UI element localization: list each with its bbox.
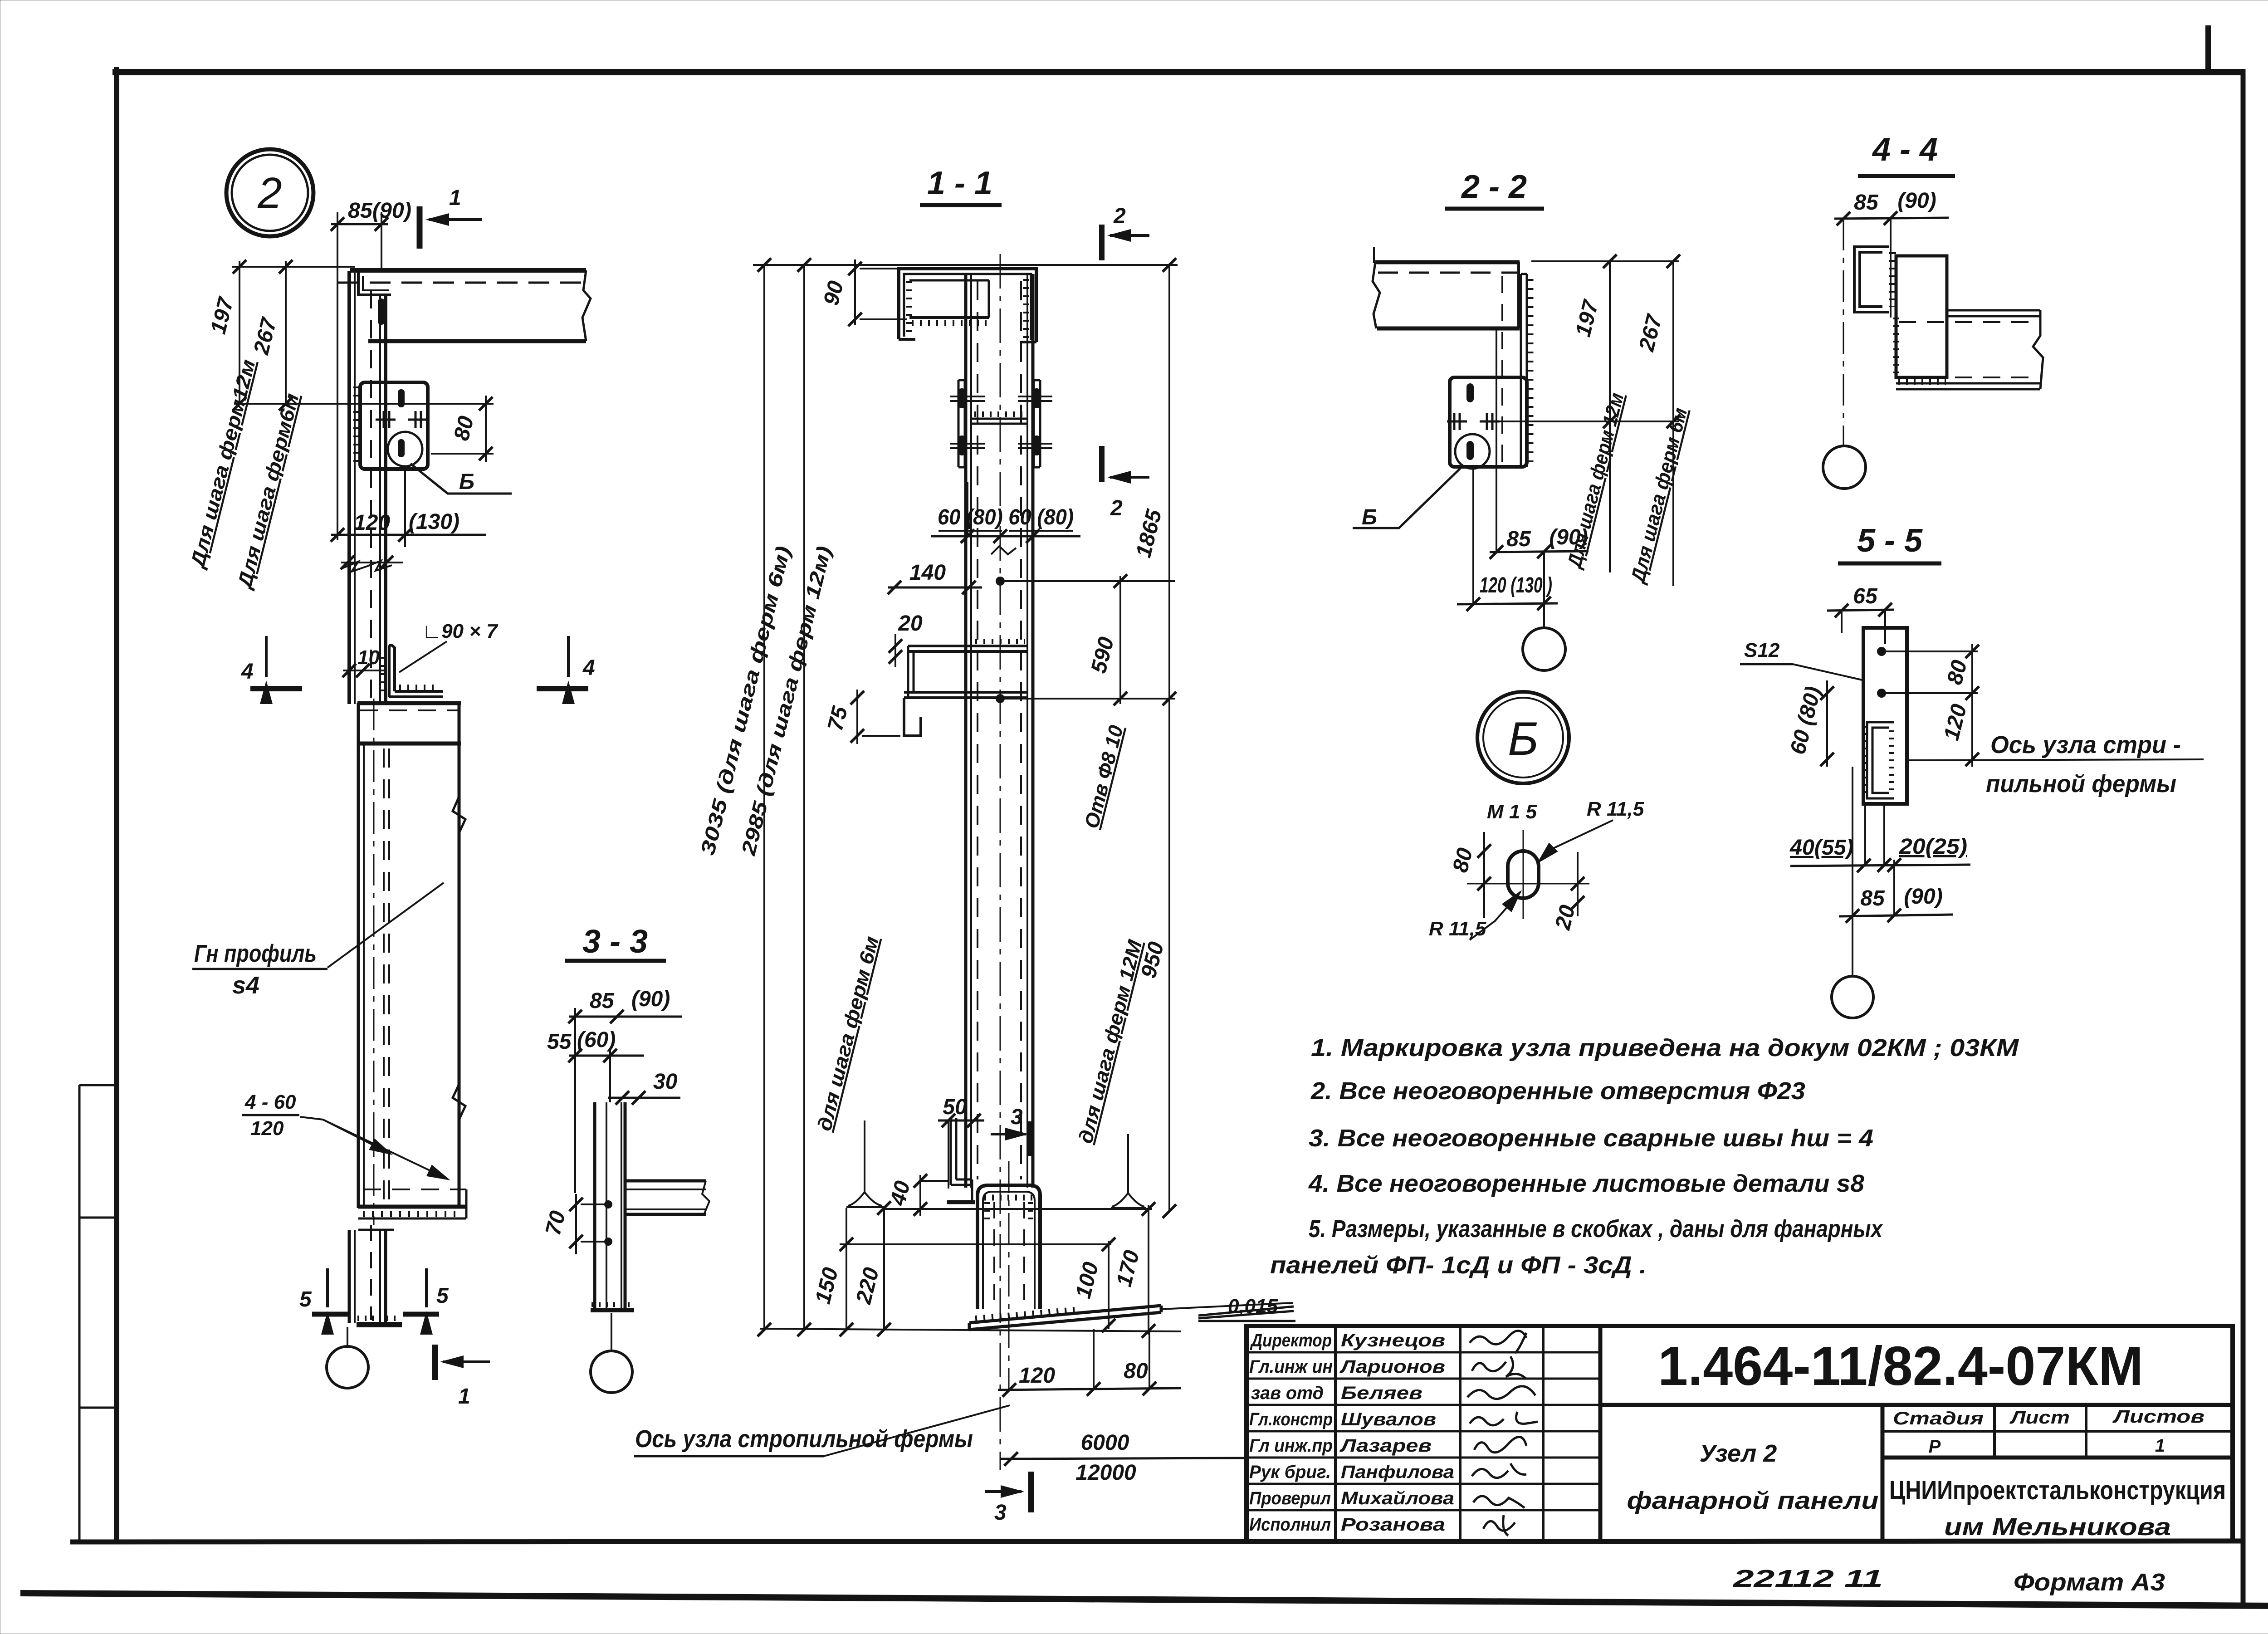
- 1-1 mid member weld comb: [974, 411, 1025, 417]
- 2-2 gusset bolt slot top: [1466, 383, 1474, 402]
- dim 80 extension lines: [431, 453, 494, 455]
- column right face: [384, 295, 387, 704]
- section mark 2 top bar: [1099, 225, 1105, 260]
- extension verticals 3-3: [574, 1008, 576, 1193]
- title 3-3 underline: [565, 959, 666, 963]
- svg-text:1: 1: [449, 186, 461, 210]
- svg-text:Проверил: Проверил: [1249, 1488, 1331, 1508]
- base plate weld comb: [975, 1309, 1080, 1318]
- column weld comb above beam: [380, 657, 386, 694]
- 2-2 gusset vertical plate: [1521, 274, 1527, 467]
- panel center dash-dot: [373, 699, 375, 1225]
- top reference line: [753, 264, 1178, 266]
- 4-4 beam bottom lines: [1896, 383, 2040, 389]
- 2-2 beam top flange: [1375, 260, 1520, 264]
- 5-5 lower dim line 40(55) 20(25): [1790, 865, 1970, 866]
- svg-text:Гл инж.пр: Гл инж.пр: [1249, 1436, 1333, 1456]
- leader R bottom: [1470, 892, 1520, 940]
- shoe dashed hidden lines: [993, 1202, 995, 1306]
- column left inner line: [354, 271, 356, 704]
- 3-3 dim 70 line: [575, 1194, 577, 1254]
- 5-5 bolt leader lines: [1886, 651, 1978, 693]
- cap channel inner: [904, 274, 1031, 340]
- dim 150 line: [846, 1208, 847, 1330]
- svg-text:120: 120: [1940, 702, 1972, 743]
- 4-4 beam top lines: [1947, 310, 2040, 316]
- bracket bottom flange: [904, 692, 1027, 698]
- svg-text:Гл.констр: Гл.констр: [1249, 1409, 1333, 1429]
- big number cell bottom line: [1600, 1403, 2233, 1407]
- dim 1865 line: [1168, 265, 1170, 1211]
- column right inner line: [379, 295, 381, 704]
- 1-1 bolt lines row 2: [950, 444, 1052, 448]
- svg-text:5 - 5: 5 - 5: [1857, 523, 1923, 559]
- svg-text:5: 5: [299, 1287, 312, 1311]
- svg-text:зав отд: зав отд: [1251, 1383, 1324, 1403]
- slot vertical center line: [1523, 830, 1524, 919]
- 5-5 axis line: [1908, 759, 2204, 760]
- 1-1 column right pair: [1026, 274, 1028, 1188]
- title 1-1 underline: [920, 203, 1002, 207]
- dim line 140: [888, 587, 982, 589]
- cap channel lips: [899, 338, 915, 341]
- left dim extension top line: [232, 266, 355, 268]
- 2-2 plate weld comb: [1528, 279, 1534, 465]
- section mark 4 right bar: [537, 686, 588, 691]
- panel bottom short line: [358, 1229, 394, 1231]
- 3-3 channel web lines: [593, 1102, 596, 1310]
- svg-text:R 11,5: R 11,5: [1587, 798, 1644, 820]
- gusset plate box: [360, 382, 428, 469]
- section mark 3 top arrow: [991, 1133, 1026, 1135]
- svg-text:пильной фермы: пильной фермы: [1986, 770, 2176, 797]
- 2-2 beam bottom flange: [1377, 327, 1520, 331]
- svg-text:Беляев: Беляев: [1341, 1383, 1422, 1403]
- panel right break mark 2: [453, 1084, 465, 1120]
- svg-text:80: 80: [450, 414, 479, 443]
- svg-text:220: 220: [851, 1265, 884, 1307]
- 2-2 dim vertical 197: [1609, 261, 1611, 572]
- trumpet foot left: [846, 1120, 884, 1207]
- title block column line 4: [1598, 1326, 1603, 1541]
- 2-2 gusset bolt slot bottom: [1466, 441, 1474, 460]
- 4-4 weld comb under plate left: [1893, 318, 1899, 377]
- 5-5 dim line 80/120: [1971, 644, 1973, 767]
- base plate sloped: [969, 1306, 1161, 1330]
- column base plate: [357, 1322, 402, 1327]
- gusset bolt slot top: [398, 389, 405, 407]
- seat weld blob: [378, 298, 385, 325]
- svg-text:2 - 2: 2 - 2: [1461, 169, 1527, 205]
- 2-2 beam left top extension: [1373, 247, 1375, 263]
- 2-2 leader to Б: [1353, 465, 1463, 528]
- svg-text:4 - 4: 4 - 4: [1872, 132, 1938, 168]
- stadia column divider: [1881, 1405, 1885, 1541]
- svg-text:267: 267: [1634, 312, 1667, 354]
- column left face: [347, 271, 351, 704]
- svg-text:Формат А3: Формат А3: [2014, 1569, 2165, 1596]
- 2-2 bolt axis horizontal: [1497, 421, 1679, 422]
- trumpet foot right: [1111, 1134, 1146, 1208]
- section mark 1 bottom bar: [432, 1345, 438, 1380]
- column break zigzag: [343, 561, 392, 572]
- cross member bottom line: [357, 742, 461, 746]
- 2-2 bolt axis vertical: [1472, 468, 1474, 604]
- axis line to bottom circle: [347, 1327, 348, 1346]
- left dim line 12m: [239, 261, 240, 404]
- svg-text:(90): (90): [631, 987, 670, 1011]
- svg-text:12000: 12000: [1075, 1461, 1136, 1485]
- svg-text:120 (130 ): 120 (130 ): [1480, 573, 1552, 597]
- svg-text:Шувалов: Шувалов: [1341, 1409, 1436, 1429]
- svg-text:Р: Р: [1929, 1437, 1941, 1457]
- column foot right pair: [379, 1230, 381, 1323]
- svg-text:140: 140: [909, 561, 946, 585]
- slot hole: [1508, 851, 1539, 898]
- leader to Б label: [411, 464, 512, 494]
- svg-text:1. Маркировка узла приведе: 1. Маркировка узла приведена на докум 02…: [1311, 1034, 2019, 1062]
- svg-text:S12: S12: [1744, 639, 1780, 661]
- shoe outer outline: [978, 1185, 1040, 1309]
- 5-5 bottom circle: [1832, 976, 1873, 1018]
- page edge bottom line: [20, 1593, 2268, 1606]
- svg-text:Для шага ферм 6м: Для шага ферм 6м: [1626, 406, 1691, 587]
- panel bottom second line: [358, 1218, 466, 1220]
- list divider 2: [2085, 1405, 2087, 1458]
- cap inner sheet top: [909, 279, 989, 282]
- bracket top weld comb: [975, 639, 1025, 644]
- svg-text:40(55): 40(55): [1789, 836, 1853, 860]
- node circle 2: [226, 149, 313, 236]
- panel bottom flange line: [358, 1205, 466, 1209]
- signature squiggle 4: [1470, 1412, 1538, 1425]
- svg-text:Михайлова: Михайлова: [1341, 1488, 1454, 1508]
- panel right break mark 1: [453, 797, 465, 833]
- 2-2 dashed hidden vertical: [1501, 276, 1503, 465]
- slope wedge lines: [1198, 1306, 1294, 1318]
- reference line at shoe top: [884, 1208, 1152, 1210]
- 5-5 bolt dot 1: [1877, 647, 1886, 656]
- slope leader line: [1161, 1303, 1293, 1309]
- bolt axis vertical line: [404, 469, 406, 547]
- panel bottom weld comb: [363, 1211, 463, 1217]
- title block row lines left part: [1246, 1352, 1600, 1510]
- 2-2 beam right end: [1517, 262, 1520, 328]
- cap sheet weld comb bottom: [912, 320, 987, 326]
- stadia row bottom: [1882, 1456, 2233, 1460]
- 2-2 axis extension to circle: [1543, 552, 1545, 628]
- svg-text:Ларионов: Ларионов: [1339, 1357, 1445, 1377]
- section mark 3 bottom arrow: [985, 1490, 1022, 1493]
- svg-text:Лист: Лист: [2009, 1408, 2070, 1428]
- 1-1 mid member double line: [971, 419, 1027, 424]
- 3-3 bottom circle: [591, 1351, 632, 1393]
- dim 100 line: [1108, 1241, 1110, 1329]
- big dim line 2985: [803, 265, 805, 1330]
- svg-text:Розанова: Розанова: [1341, 1515, 1445, 1535]
- signature squiggle 8: [1483, 1515, 1515, 1536]
- roof beam right break: [582, 270, 591, 341]
- 2-2 beam dashed line: [1378, 272, 1517, 274]
- section mark 3 top bar: [1028, 1121, 1033, 1156]
- left dim line 6m: [285, 261, 287, 404]
- 4-4 dim line: [1834, 218, 1949, 219]
- svg-text:100: 100: [1071, 1260, 1104, 1301]
- panel right face: [458, 703, 461, 1208]
- 4-4 beam dashed lines: [1899, 321, 2038, 323]
- underlines of 60(80) texts: [938, 530, 1073, 532]
- dim 50 line: [938, 1120, 984, 1122]
- top registration tick: [2205, 25, 2211, 69]
- slot horizontal center line: [1467, 883, 1589, 885]
- cap weld comb right leg: [1023, 279, 1029, 338]
- slope underline: [1198, 1320, 1295, 1322]
- 4-4 beam right end with break: [2033, 310, 2043, 389]
- title block column line 2: [1459, 1326, 1461, 1541]
- bottom circle left view: [327, 1346, 368, 1388]
- svg-text:5: 5: [436, 1284, 449, 1308]
- 5-5 channel weld comb left: [1862, 726, 1867, 796]
- leader from angle label: [399, 641, 447, 672]
- svg-text:Панфилова: Панфилова: [1341, 1462, 1454, 1482]
- 3-3 axis to circle: [611, 1313, 612, 1351]
- extension verticals for 60(80): [967, 482, 968, 536]
- extension line right of 85 dim: [381, 212, 382, 272]
- dim line 55(60): [569, 1055, 644, 1057]
- svg-text:панелей ФП- 1сД и ФП - 3: панелей ФП- 1сД и ФП - 3сД .: [1270, 1252, 1647, 1279]
- dim 10 tick line: [343, 670, 384, 671]
- signature squiggle 7: [1473, 1496, 1525, 1508]
- svg-text:(130): (130): [409, 510, 459, 534]
- dim 20 line detail: [1577, 852, 1579, 916]
- svg-text:20: 20: [1551, 903, 1580, 933]
- svg-text:(90): (90): [1549, 525, 1588, 549]
- 2-2 bolt cross left: [1447, 413, 1467, 430]
- underline of Гн профиль: [192, 968, 327, 970]
- angle weld comb: [399, 685, 440, 691]
- 5-5 dim line 65: [1827, 610, 1894, 611]
- 5-5 S12 underline: [1740, 663, 1793, 665]
- 5-5 S12 leader: [1793, 664, 1864, 680]
- svg-text:80: 80: [1448, 846, 1477, 875]
- fold tick 1: [79, 1084, 117, 1086]
- gusset bolt cross right: [408, 411, 428, 428]
- 2-2 beam left break: [1373, 262, 1380, 328]
- 1-1 mid connection right side plate: [1034, 380, 1040, 467]
- svg-text:4 - 60: 4 - 60: [244, 1091, 296, 1113]
- section mark 4 left bar: [250, 686, 302, 691]
- cross member dashed line: [360, 709, 458, 711]
- svg-text:2: 2: [1113, 204, 1126, 228]
- svg-text:85: 85: [1860, 886, 1885, 910]
- dim 80 line detail: [1483, 832, 1485, 918]
- svg-text:(90): (90): [1897, 189, 1936, 213]
- svg-text:R 11,5: R 11,5: [1429, 918, 1486, 940]
- svg-text:Гл.инж ин: Гл.инж ин: [1249, 1357, 1333, 1377]
- section mark 1 bottom arrow: [443, 1360, 490, 1363]
- left fold mark line: [78, 1085, 81, 1542]
- svg-text:75: 75: [823, 704, 853, 734]
- dim 75 line: [856, 690, 858, 744]
- svg-text:6000: 6000: [1081, 1431, 1129, 1455]
- title 2-2 underline: [1445, 207, 1544, 211]
- small bracket foot: [947, 1200, 975, 1204]
- 3-3 flange lower pair: [625, 1208, 706, 1210]
- svg-text:Б: Б: [459, 470, 474, 494]
- svg-text:Кузнецов: Кузнецов: [1341, 1331, 1445, 1350]
- svg-text:85: 85: [1506, 527, 1531, 551]
- svg-text:5. Размеры, указанные в скоб: 5. Размеры, указанные в скобках , даны д…: [1309, 1215, 1883, 1243]
- dim 590 line: [1119, 576, 1121, 704]
- frame bottom border: [70, 1541, 2243, 1542]
- 4-4 weld comb strip: [1889, 252, 1896, 307]
- shoe weld comb top: [984, 1195, 1034, 1201]
- svg-text:Стадия: Стадия: [1893, 1409, 1984, 1429]
- section mark 5 right arrow: [425, 1268, 428, 1307]
- signature squiggle 6: [1472, 1463, 1526, 1478]
- 5-5 bolt dot 2: [1877, 689, 1886, 698]
- svg-text:Отв Ф8 10: Отв Ф8 10: [1080, 723, 1128, 831]
- svg-text:197: 197: [1571, 297, 1603, 339]
- svg-text:2: 2: [257, 169, 282, 217]
- svg-text:150: 150: [811, 1265, 843, 1306]
- svg-text:Исполнил: Исполнил: [1249, 1515, 1331, 1535]
- svg-text:Б: Б: [1362, 505, 1377, 529]
- angle L90x7 horizontal leg: [389, 691, 443, 697]
- section mark 5 left arrow: [326, 1268, 329, 1307]
- stadia header underline: [1882, 1430, 2233, 1433]
- weld fraction bar: [242, 1114, 299, 1116]
- svg-text:им Мельникова: им Мельникова: [1944, 1513, 2171, 1541]
- dim line 120 80: [998, 1388, 1181, 1390]
- shoe inner outline: [983, 1192, 1035, 1309]
- roof beam hidden dashed line: [338, 282, 583, 284]
- detail Б big circle: [1477, 692, 1569, 783]
- break on axis: [991, 546, 1016, 554]
- axis label leader: [824, 1405, 1010, 1456]
- dim line 85(90): [331, 223, 388, 225]
- 5-5 C channel inside plate: [1867, 722, 1894, 798]
- svg-text:4: 4: [241, 660, 254, 684]
- big dim line 3035: [763, 265, 765, 1330]
- svg-text:Рук бриг.: Рук бриг.: [1249, 1462, 1331, 1482]
- svg-text:Ось узла стри -: Ось узла стри -: [1990, 731, 2181, 758]
- 2-2 gusset box: [1450, 377, 1527, 467]
- svg-text:ЦНИИпроектстальконструкция: ЦНИИпроектстальконструкция: [1889, 1476, 2226, 1505]
- roof beam top flange: [350, 268, 586, 273]
- signature squiggle 5: [1474, 1437, 1526, 1452]
- svg-text:Гн профиль: Гн профиль: [194, 940, 317, 967]
- 5-5 plate: [1863, 628, 1907, 804]
- dim 90 line: [854, 259, 856, 325]
- panel dashed hidden 2: [388, 749, 390, 1204]
- bolt dot on axis upper: [996, 577, 1005, 586]
- gusset weld comb left: [353, 386, 361, 467]
- cross member top line: [357, 701, 461, 705]
- bracket top flange: [908, 646, 1027, 651]
- svg-text:80: 80: [1124, 1359, 1148, 1383]
- section mark 5 left bar: [312, 1312, 349, 1317]
- bolt axis line upper: [1004, 580, 1175, 582]
- signature squiggle 1: [1470, 1331, 1526, 1353]
- fold tick 2: [79, 1217, 117, 1219]
- svg-text:2: 2: [1110, 496, 1123, 520]
- svg-text:∟90 × 7: ∟90 × 7: [422, 620, 499, 642]
- svg-text:для шага ферм 12М: для шага ферм 12М: [1075, 937, 1147, 1146]
- svg-text:20(25): 20(25): [1899, 835, 1967, 859]
- bracket left edge: [908, 646, 914, 698]
- dim 40 line: [919, 1175, 921, 1216]
- svg-text:90: 90: [819, 279, 848, 308]
- svg-text:Лазарев: Лазарев: [1339, 1436, 1432, 1456]
- column foot dashed: [370, 1225, 372, 1320]
- title block column line 3: [1542, 1326, 1545, 1541]
- signature squiggle 3: [1467, 1386, 1535, 1399]
- gusset bolt cross left: [376, 411, 396, 428]
- 2-2 dim line 85(90): [1490, 551, 1589, 552]
- 2-2 top dim line: [1531, 260, 1679, 262]
- dim line 60(80)x2: [931, 535, 1080, 538]
- svg-text:120: 120: [250, 1117, 284, 1140]
- bracket J drop: [904, 698, 921, 736]
- shoe center dash-dot: [1008, 1161, 1010, 1392]
- 4-4 plate: [1896, 256, 1947, 377]
- svg-text:80: 80: [1943, 658, 1972, 687]
- 1-1 mid connection left side plate: [958, 380, 965, 467]
- dim 20 line: [894, 634, 896, 667]
- section mark 2 bottom bar: [1099, 446, 1105, 482]
- signature squiggle 2: [1472, 1356, 1526, 1379]
- svg-text:85(90): 85(90): [348, 199, 411, 223]
- 2-2 center axis vertical: [1496, 330, 1497, 552]
- svg-text:70: 70: [541, 1208, 570, 1238]
- weld leader with two arrows: [300, 1117, 389, 1153]
- 2-2 dim vertical 267: [1672, 261, 1674, 586]
- roof beam bottom flange: [368, 339, 586, 343]
- fold tick 3: [79, 1407, 117, 1409]
- small bracket at shoe: [951, 1118, 972, 1201]
- svg-text:Директор: Директор: [1250, 1331, 1332, 1350]
- 1-1 center axis dash-dot: [1000, 254, 1001, 1470]
- cap inner sheet right edge: [988, 280, 990, 318]
- svg-text:1: 1: [458, 1384, 470, 1409]
- list divider 1: [1993, 1405, 1996, 1458]
- dim 75 extension: [862, 735, 900, 737]
- section mark 5 right bar: [403, 1312, 439, 1317]
- section mark 3 bottom bar: [1028, 1472, 1034, 1512]
- svg-text:267: 267: [249, 315, 282, 357]
- frame right border: [2241, 69, 2246, 1605]
- leader from Гн профиль to panel: [327, 883, 444, 968]
- 1-1 bolt lines row 1: [950, 396, 1052, 401]
- leader R top: [1539, 820, 1613, 862]
- svg-text:120: 120: [354, 511, 390, 535]
- svg-text:85: 85: [1854, 191, 1879, 215]
- 3-3 flange break: [702, 1181, 709, 1214]
- extension line left of 85 dim: [337, 212, 338, 540]
- svg-text:Узел 2: Узел 2: [1700, 1440, 1777, 1467]
- 5-5 extension verticals: [1841, 611, 1843, 633]
- 2-2 bolt cross right: [1480, 413, 1500, 430]
- svg-text:120: 120: [1019, 1364, 1055, 1388]
- 3-3 bolt leader lines: [581, 1203, 608, 1205]
- shoe weld comb left: [984, 1202, 990, 1225]
- panel left face: [357, 703, 360, 1208]
- svg-text:85: 85: [590, 989, 615, 1013]
- svg-text:1.464-11/82.4-07КМ: 1.464-11/82.4-07КМ: [1658, 1335, 2143, 1397]
- frame left border: [114, 67, 119, 1544]
- section mark 1 top arrow: [429, 218, 482, 221]
